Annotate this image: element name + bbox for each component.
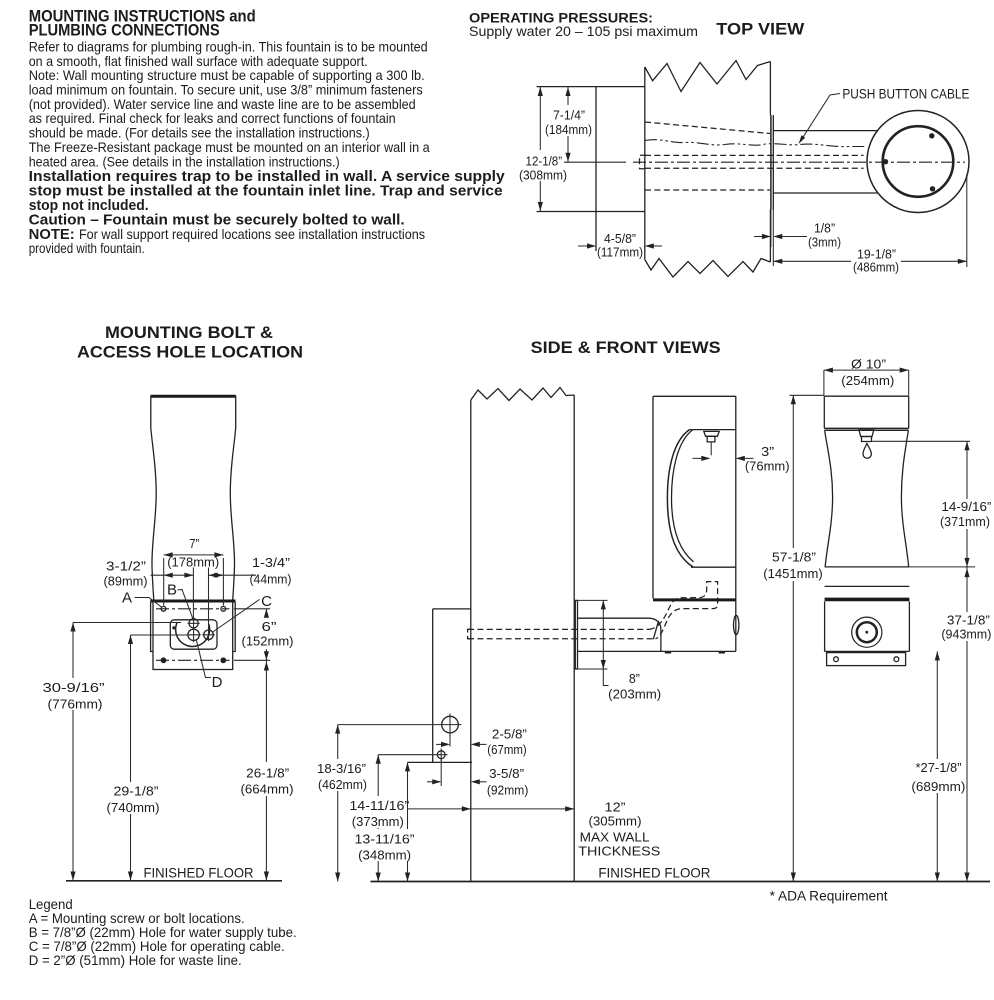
- svg-text:(486mm): (486mm): [853, 259, 899, 274]
- dashed tube stub bracket at wall face: [640, 155, 647, 169]
- svg-text:1/8”: 1/8”: [814, 221, 835, 236]
- svg-text:6”: 6”: [262, 619, 277, 634]
- svg-text:3-5/8”: 3-5/8”: [489, 766, 524, 781]
- centre reference line: [564, 161, 626, 163]
- dimension 8in (203mm) flange height: [578, 600, 662, 701]
- svg-text:PUSH BUTTON CABLE: PUSH BUTTON CABLE: [842, 86, 969, 102]
- svg-text:(117mm): (117mm): [597, 245, 643, 260]
- band line: [825, 585, 910, 587]
- recess curve inner (side profile): [672, 430, 694, 562]
- fountain bowl outer circle (top view): [867, 111, 969, 213]
- svg-text:(348mm): (348mm): [358, 847, 411, 862]
- label A with leader: [122, 590, 162, 608]
- svg-text:(203mm): (203mm): [608, 686, 661, 701]
- svg-text:THICKNESS: THICKNESS: [578, 843, 660, 858]
- arm to wall (side view): [578, 618, 736, 651]
- wall (top view) with break zigzags: [645, 61, 771, 278]
- fountain arm (top view): [773, 131, 878, 193]
- svg-text:C = 7/8”Ø (22mm) Hole for oper: C = 7/8”Ø (22mm) Hole for operating cabl…: [29, 939, 285, 954]
- svg-text:7-1/4”: 7-1/4”: [553, 108, 585, 123]
- hidden supply tube lines (dashed): [645, 155, 864, 190]
- thick separation band (front): [825, 598, 910, 602]
- svg-text:(776mm): (776mm): [48, 696, 103, 711]
- svg-text:12”: 12”: [605, 799, 626, 814]
- dimension 6in (152mm) plate hole spacing: [234, 609, 294, 661]
- heading: MOUNTING BOLT & ACCESS HOLE LOCATION: [77, 324, 303, 362]
- bowl top section (front view): [824, 396, 908, 430]
- lower box (front view): [825, 601, 910, 651]
- svg-text:A = Mounting screw or bolt loc: A = Mounting screw or bolt locations.: [29, 911, 245, 926]
- svg-text:(462mm): (462mm): [318, 777, 367, 792]
- svg-text:13-11/16”: 13-11/16”: [355, 831, 415, 846]
- dimension 3in (76mm) bubbler to face: [693, 444, 790, 474]
- bubbler (front view): [859, 430, 874, 442]
- body hourglass curves (front view): [825, 431, 909, 567]
- svg-text:as required. Final check for l: as required. Final check for leaks and c…: [29, 111, 396, 126]
- svg-text:(371mm): (371mm): [940, 514, 990, 529]
- hidden tube elbow and riser in base (dashed): [649, 582, 718, 639]
- svg-text:1-3/4”: 1-3/4”: [252, 555, 290, 570]
- bolt centerline bottom (dash-dot): [156, 659, 230, 661]
- svg-text:57-1/8”: 57-1/8”: [772, 549, 816, 564]
- dimension 4-5/8in (117mm) box depth: [578, 231, 662, 260]
- svg-text:29-1/8”: 29-1/8”: [114, 783, 159, 798]
- finished floor (side/front views): [371, 864, 991, 881]
- svg-text:D: D: [212, 674, 223, 691]
- label B with leader: [167, 582, 193, 619]
- svg-text:(308mm): (308mm): [519, 168, 567, 183]
- svg-text:Supply water 20 – 105 psi maxi: Supply water 20 – 105 psi maximum: [469, 24, 698, 39]
- svg-text:Refer to diagrams for plumbing: Refer to diagrams for plumbing rough-in.…: [29, 40, 428, 55]
- paragraph: plumbing connection notes: [29, 40, 430, 170]
- svg-text:B: B: [167, 582, 177, 599]
- svg-text:MAX WALL: MAX WALL: [580, 829, 650, 844]
- dimension 57-1/8in (1451mm) overall height: [762, 395, 824, 881]
- label C with leader: [212, 593, 272, 633]
- center hole circle on arc center: [186, 628, 200, 642]
- svg-text:(689mm): (689mm): [911, 779, 965, 794]
- svg-text:2-5/8”: 2-5/8”: [492, 726, 527, 741]
- svg-text:heated area. (See details in t: heated area. (See details in the install…: [29, 154, 340, 169]
- svg-text:provided with fountain.: provided with fountain.: [29, 241, 145, 256]
- extension line to hole B: [338, 724, 439, 726]
- fountain base edge (thick): [150, 600, 235, 603]
- recess curve outer (side profile): [667, 430, 693, 567]
- note: wall support: [29, 227, 425, 256]
- svg-text:load minimum on fountain. To s: load minimum on fountain. To secure unit…: [29, 83, 423, 98]
- svg-text:(178mm): (178mm): [167, 554, 219, 569]
- bolt hole top-right: [221, 606, 226, 611]
- access hole B circle (side view): [439, 714, 462, 738]
- svg-text:(92mm): (92mm): [487, 782, 529, 797]
- svg-text:(184mm): (184mm): [545, 122, 592, 137]
- svg-text:(not provided). Water service: (not provided). Water service line and w…: [29, 97, 416, 112]
- svg-text:(943mm): (943mm): [941, 626, 991, 641]
- finished floor line (left drawing): [66, 865, 282, 881]
- svg-text:The Freeze-Resistant package m: The Freeze-Resistant package must be mou…: [29, 140, 430, 155]
- svg-text:stop not included.: stop not included.: [29, 198, 149, 214]
- push button on front face (side view): [734, 615, 739, 634]
- svg-text:FINISHED FLOOR: FINISHED FLOOR: [598, 864, 710, 880]
- fountain bowl inner circle: [883, 126, 954, 197]
- dimension 18-3/16in (462mm): [315, 725, 369, 882]
- svg-text:FINISHED FLOOR: FINISHED FLOOR: [144, 865, 254, 881]
- recess bottom line: [691, 566, 736, 568]
- dimension 12in (305mm) max wall thickness: [408, 799, 661, 858]
- dimension 37-1/8in (943mm): [939, 567, 994, 882]
- svg-text:MOUNTING BOLT &: MOUNTING BOLT &: [105, 324, 273, 342]
- svg-text:A: A: [122, 590, 132, 607]
- svg-text:TOP VIEW: TOP VIEW: [716, 21, 804, 39]
- base feet nubs (side view): [665, 651, 725, 653]
- dimension 29-1/8in (740mm) height to D: [105, 635, 188, 881]
- svg-text:should be made. (For details s: should be made. (For details see the ins…: [29, 126, 370, 141]
- fountain body (side profile): [653, 396, 736, 651]
- svg-text:(67mm): (67mm): [487, 742, 526, 757]
- push button cable (wavy line): [645, 140, 866, 147]
- svg-text:(89mm): (89mm): [104, 573, 148, 588]
- svg-text:14-11/16”: 14-11/16”: [349, 798, 409, 813]
- svg-text:* ADA Requirement: * ADA Requirement: [770, 888, 888, 903]
- label D with leader: [197, 641, 223, 692]
- fountain pedestal outline (front silhouette): [151, 396, 236, 602]
- dimension 1/8in (3mm) plate thickness: [754, 221, 841, 250]
- water drop from bubbler: [863, 444, 871, 459]
- svg-text:(254mm): (254mm): [841, 373, 894, 388]
- svg-text:7”: 7”: [189, 536, 199, 551]
- dimension dia 10in (254mm): [824, 356, 909, 395]
- heading: OPERATING PRESSURES: [469, 10, 698, 39]
- push button (front view): [852, 617, 882, 647]
- svg-text:C: C: [261, 593, 272, 610]
- svg-text:8”: 8”: [629, 671, 640, 686]
- dimension 26-1/8in (664mm) height to bottom bolts: [239, 660, 295, 880]
- dimension 14-9/16in (371mm): [872, 441, 994, 567]
- mounting bracket under box (front view): [827, 653, 906, 666]
- dimension 2-5/8in (67mm): [436, 726, 527, 757]
- dimension 13-11/16in (348mm): [352, 762, 416, 881]
- svg-text:(76mm): (76mm): [745, 458, 790, 473]
- svg-text:Legend: Legend: [29, 897, 73, 912]
- extension line to hole C: [378, 754, 435, 756]
- dimension 7in (178mm) bolt spacing: [164, 536, 224, 606]
- svg-text:(373mm): (373mm): [352, 814, 404, 829]
- svg-text:SIDE & FRONT VIEWS: SIDE & FRONT VIEWS: [531, 339, 721, 357]
- svg-text:(44mm): (44mm): [250, 571, 292, 586]
- svg-text:37-1/8”: 37-1/8”: [947, 612, 990, 627]
- svg-text:3-1/2”: 3-1/2”: [106, 558, 146, 573]
- extension line at body bottom: [910, 566, 976, 568]
- base side stubs behind plate: [151, 602, 236, 652]
- dimension 30-9/16in (776mm) height to B: [41, 623, 181, 881]
- svg-text:Ø 10”: Ø 10”: [851, 356, 886, 371]
- svg-text:12-1/8”: 12-1/8”: [526, 154, 563, 169]
- bolt hole A top-left: [161, 606, 166, 611]
- bolt dots inside bowl: [883, 133, 935, 191]
- hidden cable conduit (dashed, slanted): [645, 122, 770, 134]
- in-wall unit box (side view): [408, 609, 473, 763]
- svg-text:ACCESS HOLE LOCATION: ACCESS HOLE LOCATION: [77, 344, 303, 362]
- svg-text:3”: 3”: [761, 444, 774, 459]
- dimension 19-1/8in (486mm): [773, 174, 967, 274]
- in-wall unit box (top view): [537, 87, 645, 251]
- svg-text:30-9/16”: 30-9/16”: [43, 680, 105, 695]
- svg-text:18-3/16”: 18-3/16”: [317, 761, 366, 776]
- dimension 7-1/4in (184mm): [544, 87, 593, 162]
- bubbler (side view): [704, 431, 719, 455]
- dimension 12-1/8in (308mm) box height: [518, 87, 568, 211]
- hole C circle (operating cable): [202, 629, 215, 642]
- svg-text:(1451mm): (1451mm): [763, 566, 823, 581]
- svg-text:(3mm): (3mm): [808, 235, 841, 250]
- body bottom line: [825, 566, 910, 568]
- legend: [29, 897, 297, 968]
- access hole C circle (side view): [435, 749, 448, 762]
- dimension 14-11/16in (373mm): [347, 755, 411, 882]
- svg-text:on a smooth, flat finished wal: on a smooth, flat finished wall surface …: [29, 54, 368, 69]
- svg-text:PLUMBING CONNECTIONS: PLUMBING CONNECTIONS: [29, 22, 220, 40]
- thick base separation line (side): [653, 598, 736, 601]
- dimension 3-5/8in (92mm): [427, 759, 528, 798]
- svg-text:(152mm): (152mm): [242, 633, 294, 648]
- bolt hole bottom-left (filled): [161, 657, 167, 663]
- svg-text:B = 7/8”Ø (22mm) Hole for wate: B = 7/8”Ø (22mm) Hole for water supply t…: [29, 925, 297, 940]
- wall plate / escutcheon (top view): [771, 115, 773, 266]
- wall (side view) with break zigzag: [471, 388, 574, 882]
- svg-text:14-9/16”: 14-9/16”: [941, 499, 991, 514]
- svg-text:*27-1/8”: *27-1/8”: [916, 760, 962, 775]
- bolt centerline top (dash-dot): [156, 608, 230, 610]
- paragraph bold: trap / service stop requirement: [29, 169, 506, 228]
- reference dot on arc: [172, 626, 175, 629]
- svg-text:D = 2”Ø (51mm) Hole for waste: D = 2”Ø (51mm) Hole for waste line.: [29, 953, 242, 968]
- wall flange / escutcheon (side view): [575, 600, 577, 669]
- centerline (dash-dot) through assembly: [633, 161, 965, 163]
- hole B circle (water supply): [188, 617, 200, 629]
- access recess rounded rectangle: [170, 620, 217, 649]
- bolt hole bottom-right (filled): [220, 657, 226, 663]
- dimension ADA *27-1/8in (689mm): [910, 651, 965, 881]
- svg-text:Note: Wall mounting structure: Note: Wall mounting structure must be ca…: [29, 68, 425, 83]
- svg-text:(740mm): (740mm): [107, 800, 160, 815]
- waste hole D arc: [176, 622, 210, 647]
- dimension 3-1/2in (89mm): [104, 558, 194, 618]
- svg-text:26-1/8”: 26-1/8”: [246, 765, 289, 780]
- dimension 1-3/4in (44mm): [209, 555, 292, 630]
- svg-text:(664mm): (664mm): [241, 781, 294, 796]
- hidden supply tube through wall (dashed): [468, 629, 656, 638]
- label: PUSH BUTTON CABLE with leader: [799, 86, 970, 145]
- supply tube stub bracket at wall face (dashed): [468, 629, 471, 638]
- mounting plate outline: [153, 603, 233, 670]
- svg-text:(305mm): (305mm): [589, 813, 642, 828]
- title: MOUNTING INSTRUCTIONS and PLUMBING CONNECTIONS: [29, 8, 256, 40]
